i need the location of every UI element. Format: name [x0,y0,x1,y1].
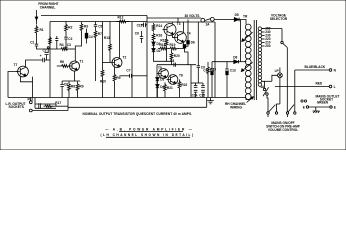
resistor R3 [80,22,83,33]
resistor R13 [109,42,112,53]
wire driver box top [157,64,196,66]
wire R10 link [102,63,104,68]
capacitor C5 [94,25,97,27]
wire fb wire [47,49,49,53]
socket PL2 [29,109,32,112]
wire T7 base [8,72,17,98]
wire rail step down [177,18,179,22]
svg-text:R22: R22 [181,83,187,87]
resistor R22 [178,80,181,91]
wire ground rail step up [206,98,208,108]
node tap 250V [262,28,265,30]
svg-text:R18: R18 [160,43,166,47]
switch S1 [263,88,265,90]
wire T3 T4 link [173,35,175,37]
wire C1 to board [37,46,51,49]
wire tap 250 to selector [262,28,282,30]
wire fb wire 2 [46,55,48,60]
wire R13 col bot [109,52,111,63]
resistor R12 [116,20,130,23]
transistor T4 [175,32,187,44]
wire C13a wire [141,24,144,26]
svg-text:R16: R16 [156,34,162,38]
wire out link [191,82,203,84]
svg-text:R21: R21 [167,86,173,90]
svg-text:D6: D6 [191,41,195,45]
wire R22 bot [179,90,181,98]
wire T4 up [182,22,184,32]
wire rectifier link [240,20,242,62]
capacitor C12 [210,69,214,71]
wire R16 bot [153,41,155,42]
wire rectifier to transformer [238,61,246,63]
capacitor C16 [39,103,41,108]
wire R2 bottom [65,33,67,38]
wire selector drop [286,48,288,112]
wire T1 emitter [74,71,76,81]
wire C2 bottom [65,39,67,47]
wire top supply rail [41,15,147,17]
wire diode to transformer [239,20,246,25]
wire D4 bot [156,88,158,98]
resistor R15 [165,38,168,48]
svg-text:R9: R9 [116,76,120,80]
transformer TR1 tap arrow 1 [242,32,253,41]
wire R13 col top [109,22,111,43]
diode D8 [234,60,239,64]
wire S2b stub [287,114,289,117]
wire B+ drop [187,20,189,41]
wire R4 to node [70,48,75,50]
svg-text:C15: C15 [199,93,205,97]
capacitor C13a [144,23,146,28]
transistor T1 [70,61,80,71]
svg-text:D5: D5 [235,13,239,17]
wire lamp top [279,68,281,73]
node tap 200V [262,45,265,47]
capacitor C2b [45,53,49,55]
wire bootstrap wire 2 [45,59,50,61]
wire R20 bot [171,61,173,64]
wire R11 bot [114,84,116,98]
wire R15 top [166,35,168,38]
svg-text:NOMINAL OUTPUT TRANSISTOR QUIE: NOMINAL OUTPUT TRANSISTOR QUIESCENT CURR… [83,112,193,116]
wire board divider [146,16,148,98]
wire C9 top [197,22,199,66]
node FB [47,47,49,49]
wire R9b bot [77,93,79,98]
svg-text:T2: T2 [123,55,127,59]
node tap 220V [262,38,265,40]
capacitor C11 [43,58,45,62]
svg-text:C3: C3 [67,43,71,47]
wire R6 left [57,65,59,67]
wire T2 emitter [114,67,116,72]
wire live wire [275,86,329,88]
wire R8b bot [68,93,70,98]
resistor R1 [35,25,38,35]
wire C13 bot [226,75,228,98]
svg-text:D8: D8 [233,56,237,60]
diode D1 [152,42,155,45]
wire neutral wire [295,69,329,71]
wire D7 down [185,48,189,65]
wire lamp elbow [277,104,280,112]
svg-text:R2: R2 [68,26,72,30]
wire C10m v [141,31,143,37]
svg-text:C2: C2 [43,48,47,52]
wire board top right section [147,21,215,23]
wire mid column [131,22,133,76]
svg-text:R14: R14 [156,24,162,28]
resistor R9b [76,82,79,94]
wire C14 leads [195,83,197,86]
wire lamp drop [279,78,281,104]
svg-text:R1: R1 [40,28,44,32]
wire C7 wire [120,75,130,77]
resistor R16 [152,33,155,42]
svg-text:C1: C1 [30,40,34,44]
terminal E right [330,106,332,108]
capacitor C7 [130,74,132,78]
wire C5 top [95,22,97,25]
resistor R2 [65,23,68,34]
terminal N [329,69,332,72]
diode D3 [156,78,159,81]
capacitor C6b [55,39,58,41]
wire C4 top [86,29,88,34]
wire C4 bottom [86,38,88,43]
capacitor C10m [140,37,143,39]
wire cluster top [62,80,80,82]
wire earth wire [309,106,330,108]
svg-text:R9: R9 [79,85,83,89]
resistor R2a [49,36,52,46]
resistor R23 [207,66,210,75]
svg-text:R6: R6 [60,60,64,64]
wire R21 bot [164,93,166,98]
svg-text:R17: R17 [55,101,61,105]
svg-text:T3: T3 [177,22,181,26]
node tap 230V [262,35,265,37]
resistor R8b [68,82,71,94]
lamp LP [278,73,283,78]
svg-text:E: E [334,105,336,109]
wire board left edge [49,22,51,98]
wire ground rail left [32,110,68,112]
svg-text:R3: R3 [84,25,88,29]
voltage selector wiper [281,29,283,42]
wire output rail [8,97,246,99]
resistor R18 [158,47,169,50]
wire D6-D7 [186,44,188,46]
diode D4 [156,85,159,88]
transformer TR1 secondary winding [258,27,262,31]
wire rail to transformer bottom [246,98,250,100]
svg-text:E: E [303,105,305,109]
wire C15 leads [202,83,204,86]
wire T2 base wire [103,62,111,64]
wire R23 bot [207,74,209,97]
svg-text:T1: T1 [80,59,84,63]
wire S2a stub [267,114,269,117]
svg-text:C6: C6 [135,31,139,35]
capacitor C4 [85,33,88,38]
resistor R14 [152,23,155,32]
wire R3 bottom [75,32,81,61]
wire C7 wire 2 [131,75,147,77]
wire board right edge [214,22,216,98]
svg-text:T6: T6 [179,73,183,77]
svg-text:C7: C7 [126,69,130,73]
wire T7 emitter down [32,82,34,98]
svg-text:D2: D2 [157,49,161,53]
wire C5 bot [95,27,97,29]
capacitor C13 [225,69,229,71]
wire rail drop to zobel [34,98,36,105]
terminal L [329,85,332,88]
svg-text:T7: T7 [14,63,18,67]
svg-text:38 VOLTS: 38 VOLTS [185,14,200,18]
wire zobel right [55,104,57,106]
capacitor C6 [60,85,64,87]
wire N wire drop [294,70,296,112]
capacitor C8 [174,63,176,67]
svg-text:C4: C4 [89,35,93,39]
svg-text:C2: C2 [68,37,72,41]
wire sec lead up [272,75,278,81]
svg-text:RED: RED [316,82,323,86]
svg-text:T4: T4 [187,32,191,36]
wire R10 bot [102,79,104,98]
wire driver box right [190,65,192,98]
svg-text:— A.B. POWER AMPLIFIER —: — A.B. POWER AMPLIFIER — [105,128,193,132]
wire secondary bottom lead [262,81,265,88]
svg-text:VOLUME CONTROL: VOLUME CONTROL [268,128,298,132]
capacitor C3 [64,47,67,49]
RH channel arrow [247,97,254,103]
wire zobel bottom [35,107,56,109]
svg-text:R7: R7 [98,32,102,36]
fuse F1 [201,18,205,22]
svg-text:L: L [334,85,336,89]
transistor T3 [164,24,176,36]
wire C14 bot [195,92,197,97]
resistor R6 [59,65,71,68]
terminal E left [306,106,308,108]
svg-text:C8: C8 [170,59,174,63]
wire C12 bot [211,75,213,98]
svg-text:R10: R10 [100,79,106,83]
resistor R17 [44,105,54,108]
svg-text:D3: D3 [160,77,164,81]
resistor R21 [164,83,167,94]
wire R4 join [50,48,58,50]
diode D7 [183,45,186,48]
wire C6 bot [61,87,63,98]
wire socket to rail [30,98,32,101]
diode D2 [152,49,155,52]
wire zobel out [53,105,69,107]
svg-text:C5: C5 [98,25,102,29]
wire board top left section [50,21,147,23]
resistor R7 [94,29,97,41]
wire C6 top [61,81,63,85]
transistor T2 [112,58,122,68]
svg-text:C14: C14 [192,93,198,97]
svg-text:1A: 1A [205,22,210,26]
node tap 210V [262,42,265,44]
wire c6b drop [56,40,58,49]
svg-text:WIRING: WIRING [230,105,242,109]
wire R8 col [102,22,104,63]
wire rectifier feed [212,61,234,63]
wire C12 top [211,62,213,69]
svg-text:R13: R13 [104,36,110,40]
svg-text:T5: T5 [158,66,162,70]
svg-text:R4: R4 [60,43,64,47]
input arrow [36,10,38,25]
wire R19 out [178,43,183,48]
diode D6 [187,41,190,44]
wire mid column low [131,76,133,98]
transformer TR1 tap arrow 2 [241,62,252,71]
wire D3-D4 [156,81,158,85]
wire R23 top [207,62,209,66]
svg-text:TR: TR [243,15,248,19]
wire R7 bottom [95,40,97,82]
wire c6b top [56,36,58,39]
svg-text:GREEN: GREEN [317,101,329,105]
wire C9 bot [197,68,199,83]
wire T7 emitter loop [21,76,33,81]
capacitor C9 [197,66,200,68]
svg-text:R15: R15 [160,39,166,43]
wire C13a wire2 [145,24,147,26]
svg-text:1A: 1A [260,85,265,89]
transistor T6 [168,75,178,85]
wire C13 top [226,62,228,69]
transistor T5 [159,69,169,79]
title underline 2 [106,136,190,138]
svg-text:(LH CHANNEL SHOWN IN DETAI: (LH CHANNEL SHOWN IN DETAIL) [100,133,194,137]
wire R1 to C1 [36,34,38,44]
resistor R19 [168,47,179,50]
wire R15 bot [166,47,168,61]
wire zobel top [35,103,56,105]
transformer TR1 primary winding [245,24,251,30]
svg-text:SOCKETS: SOCKETS [9,105,24,109]
wire driver box left [156,65,158,98]
diode D5 [234,18,239,22]
wire R2 top [65,22,67,23]
svg-text:C13: C13 [137,24,143,28]
resistor R20 [170,50,173,62]
wire ground rail main [68,106,207,108]
wire T7 collector [26,60,43,66]
svg-text:C12: C12 [203,69,209,73]
chassis ground [313,107,320,113]
svg-text:CHANNEL: CHANNEL [40,6,56,10]
wire D2 bot [154,52,172,62]
svg-text:R19: R19 [170,43,176,47]
capacitor C15 [201,86,205,93]
svg-text:BLUE/BLACK: BLUE/BLACK [305,65,326,69]
wire C10m v2 [141,38,143,43]
wire S1 drop [267,95,268,112]
switch S2a [267,112,269,114]
wire zobel ground drop [67,98,69,111]
wire zobel left [34,104,36,108]
wire supply rail right [147,17,201,19]
svg-text:C13: C13 [230,69,236,73]
svg-text:R8: R8 [71,85,75,89]
capacitor C14 [194,86,198,93]
node tap 240V [262,31,265,33]
svg-text:R20: R20 [174,54,180,58]
capacitor C1 [35,44,38,46]
ground [207,98,214,104]
transformer TR1 core [254,20,256,100]
transistor T7 [18,66,29,77]
resistor R10 [101,67,104,80]
wire cluster top drop [79,80,81,83]
resistor R4 [58,48,71,51]
title underline 1 [119,131,183,133]
wire D1-D2 [153,45,155,48]
socket PL1 [29,101,32,104]
svg-text:R12: R12 [118,16,124,20]
switch S2b [286,112,288,114]
wire C15 bot [202,92,204,97]
svg-text:SELECTOR: SELECTOR [270,17,288,21]
wire R6 to T1 base [69,65,71,67]
socket holes [301,100,303,102]
wire fuse to diode [214,19,234,21]
wire sec lead across [265,80,272,82]
capacitor C2 [64,37,67,39]
svg-text:200: 200 [265,44,271,48]
svg-text:+: + [40,54,42,58]
wire T2 collector [119,22,121,58]
resistor R11 [113,72,116,85]
wire T3 up [172,22,174,24]
